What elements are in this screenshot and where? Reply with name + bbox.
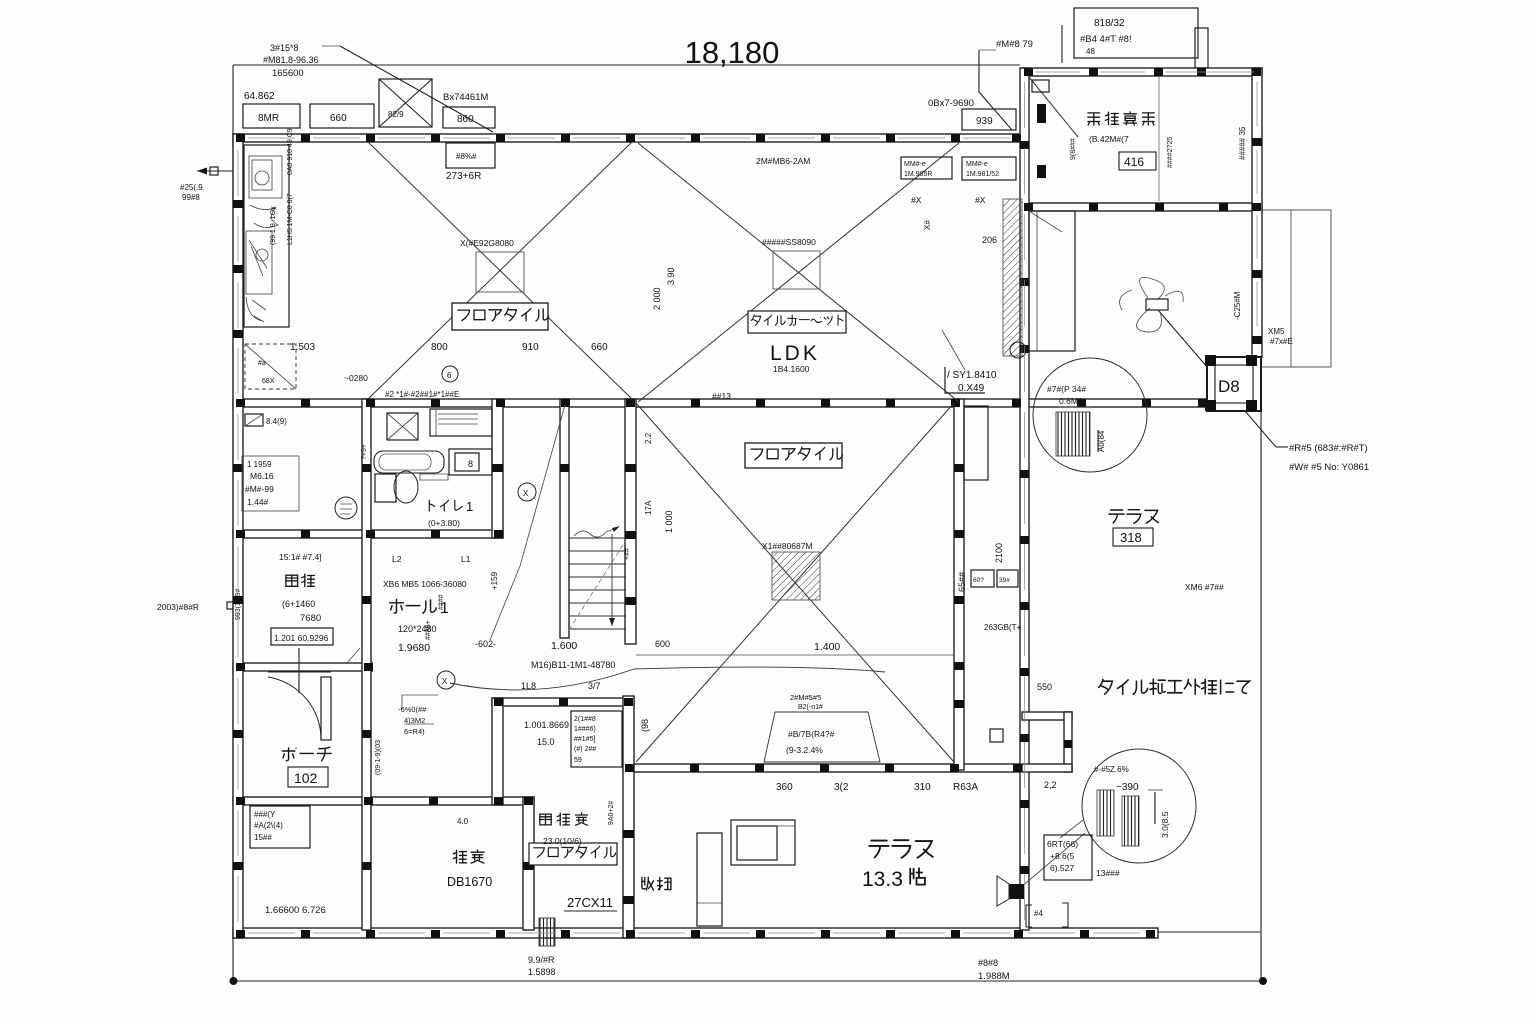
svg-text:#8%#: #8%# [456, 152, 477, 161]
svg-text:#-#5Z.6%: #-#5Z.6% [1094, 765, 1129, 774]
svg-text:1.988M: 1.988M [978, 971, 1010, 982]
svg-text:(0+3.80): (0+3.80) [428, 518, 460, 528]
svg-text:6: 6 [447, 371, 452, 380]
svg-text:(99 1.9 :1Oy: (99 1.9 :1Oy [270, 206, 277, 245]
svg-text:59: 59 [574, 757, 582, 764]
svg-text:#8#8: #8#8 [978, 958, 998, 968]
svg-text:#B/7B(R4?#: #B/7B(R4?# [788, 729, 835, 739]
svg-text:60?: 60? [973, 577, 984, 584]
svg-text:#R#5 (683#:#R#T): #R#5 (683#:#R#T) [1289, 443, 1368, 454]
svg-text:###6+: ###6+ [425, 620, 432, 640]
svg-text:L1: L1 [461, 554, 471, 564]
svg-text:1M.981/52: 1M.981/52 [966, 171, 999, 178]
svg-text:15.0: 15.0 [537, 737, 555, 747]
svg-text:(09-1-9)(03: (09-1-9)(03 [375, 740, 382, 775]
svg-text:64.862: 64.862 [244, 91, 275, 102]
svg-text:23.0(10/6): 23.0(10/6) [543, 836, 582, 846]
svg-text:(9-3.2.4%: (9-3.2.4% [786, 745, 823, 755]
svg-text:#M#8 79: #M#8 79 [996, 39, 1033, 50]
svg-text:X(#E92G8080: X(#E92G8080 [460, 238, 514, 248]
svg-text:1 000: 1 000 [664, 510, 674, 533]
svg-text:~390: ~390 [1116, 782, 1139, 793]
svg-text:##### 35: ##### 35 [1238, 126, 1247, 160]
svg-text:####: #### [438, 594, 445, 610]
svg-text:1 1959: 1 1959 [247, 460, 272, 469]
svg-text:13###: 13### [1096, 868, 1120, 878]
svg-text:15##: 15## [254, 833, 272, 842]
svg-text:0A0 910 49 C9: 0A0 910 49 C9 [287, 128, 294, 175]
svg-text:318: 318 [1120, 530, 1142, 545]
svg-text:600: 600 [655, 639, 670, 649]
svg-text:8.4(9): 8.4(9) [266, 417, 287, 426]
svg-text:(#) 2##: (#) 2## [574, 746, 596, 753]
svg-text:9.9/#R: 9.9/#R [528, 955, 555, 965]
svg-text:+##: +## [624, 548, 631, 560]
svg-text:-602-: -602- [475, 639, 496, 649]
svg-text:XB6 MB5 1066-36080: XB6 MB5 1066-36080 [383, 579, 467, 589]
svg-text:1.9680: 1.9680 [398, 642, 430, 654]
svg-text:17A: 17A [644, 500, 653, 515]
svg-text:7680: 7680 [300, 613, 321, 624]
svg-text:X#: X# [923, 220, 932, 230]
svg-text:27CX11: 27CX11 [567, 895, 613, 910]
svg-text:Bx74461M: Bx74461M [443, 92, 489, 103]
svg-text:416: 416 [1124, 155, 1144, 169]
svg-text:2100: 2100 [994, 543, 1004, 563]
svg-text:+159: +159 [490, 571, 499, 590]
svg-text:2(1##8: 2(1##8 [574, 716, 596, 723]
svg-text:18,180: 18,180 [685, 35, 780, 70]
svg-text:1.5898: 1.5898 [528, 967, 556, 977]
svg-text:0Bx7-9690: 0Bx7-9690 [928, 98, 974, 109]
svg-text:#W# #5 No: Y0861: #W# #5 No: Y0861 [1289, 462, 1369, 473]
svg-text:L1H5 1M-C8 0(7: L1H5 1M-C8 0(7 [287, 193, 294, 245]
svg-text:3.0(8.5: 3.0(8.5 [1160, 811, 1170, 838]
svg-text:1.66600 6.726: 1.66600 6.726 [265, 905, 326, 916]
svg-text:8MR: 8MR [258, 113, 279, 124]
svg-text:1M.985R: 1M.985R [904, 171, 932, 178]
svg-text:2.2: 2.2 [644, 432, 653, 444]
svg-text:(B.42M#(7: (B.42M#(7 [1089, 134, 1129, 144]
svg-text:206: 206 [982, 235, 997, 245]
svg-text:0.6M6: 0.6M6 [1059, 396, 1083, 406]
svg-text:#7x#E: #7x#E [1270, 337, 1293, 346]
svg-text:6RT(66): 6RT(66) [1047, 839, 1078, 849]
svg-text:1.400: 1.400 [814, 641, 840, 653]
svg-text:M16)B11-1M1-48780: M16)B11-1M1-48780 [531, 660, 615, 670]
svg-text:15:1# #7.4]: 15:1# #7.4] [279, 552, 322, 562]
svg-text:8: 8 [468, 459, 473, 469]
svg-text:?+9+: ?+9+ [361, 444, 368, 460]
svg-text:#2 *1#-#2##1#*1##E: #2 *1#-#2##1#*1##E [385, 390, 459, 399]
svg-text:310: 310 [914, 782, 931, 793]
svg-text:3/7: 3/7 [588, 681, 601, 691]
svg-text:4.0: 4.0 [457, 817, 469, 826]
svg-text:3(2: 3(2 [834, 782, 849, 793]
svg-text:R63A: R63A [953, 782, 978, 793]
svg-text:65##: 65## [957, 572, 967, 592]
svg-text:1: 1 [466, 499, 473, 514]
svg-text:99#8: 99#8 [182, 193, 200, 202]
svg-text:#M#-99: #M#-99 [245, 484, 274, 494]
svg-text:660: 660 [591, 342, 608, 353]
svg-text:+8.6(5: +8.6(5 [1050, 851, 1075, 861]
svg-text:~0280: ~0280 [344, 373, 368, 383]
svg-text:XM6 #7##: XM6 #7## [1185, 582, 1224, 592]
svg-text:550: 550 [1037, 682, 1052, 692]
svg-text:82/9: 82/9 [388, 110, 404, 119]
svg-text:165600: 165600 [272, 68, 304, 79]
svg-text:L2: L2 [392, 554, 402, 564]
svg-text:860: 860 [457, 114, 474, 125]
svg-text:(6+1460: (6+1460 [282, 599, 315, 609]
svg-text:360: 360 [776, 782, 793, 793]
svg-text:MM#-e: MM#-e [966, 161, 988, 168]
svg-text:-6%0(##: -6%0(## [398, 705, 427, 714]
svg-text:##13: ##13 [712, 391, 731, 401]
svg-text:#4: #4 [1034, 909, 1043, 918]
svg-text:X1##80687M: X1##80687M [762, 541, 813, 551]
svg-text:M6.16: M6.16 [250, 471, 274, 481]
svg-text:3#15*8: 3#15*8 [270, 43, 299, 53]
svg-text:68X: 68X [262, 378, 275, 385]
svg-text:#####SS8090: #####SS8090 [762, 237, 816, 247]
svg-text:#X: #X [975, 195, 986, 205]
svg-text:1.001.8669: 1.001.8669 [524, 720, 569, 730]
svg-text:4)3M2: 4)3M2 [404, 716, 425, 725]
svg-text:1###6): 1###6) [574, 726, 596, 733]
svg-text:2003)#8#R: 2003)#8#R [157, 602, 199, 612]
svg-text:1.600: 1.600 [551, 640, 577, 652]
svg-text:D8: D8 [1218, 377, 1240, 396]
svg-text:#A(2\(4): #A(2\(4) [254, 821, 283, 830]
svg-text:#M81.8-96.36: #M81.8-96.36 [263, 55, 319, 65]
svg-text:X: X [442, 677, 448, 686]
svg-text:#a: #a [258, 360, 266, 367]
svg-text:660: 660 [330, 113, 347, 124]
svg-text:X: X [523, 489, 529, 498]
svg-text:1.201 60.9296: 1.201 60.9296 [274, 633, 329, 643]
svg-text:3 90: 3 90 [666, 267, 676, 285]
svg-text:(98: (98 [640, 719, 650, 732]
svg-text:1B4.1600: 1B4.1600 [773, 364, 810, 374]
svg-text:A0(84: A0(84 [1097, 430, 1106, 452]
svg-text:XM5: XM5 [1268, 327, 1285, 336]
svg-text:6).527: 6).527 [1050, 863, 1074, 873]
svg-text:#B4 4#T #8!: #B4 4#T #8! [1080, 34, 1132, 45]
svg-text:273+6R: 273+6R [446, 171, 481, 182]
svg-text:B2(-n1#: B2(-n1# [798, 704, 823, 711]
svg-text:1L8: 1L8 [521, 681, 536, 691]
svg-text:#X: #X [911, 195, 922, 205]
svg-text:9A0+2#: 9A0+2# [608, 801, 615, 825]
svg-text:#7#(P 34#: #7#(P 34# [1047, 384, 1086, 394]
svg-text:1.44#: 1.44# [247, 497, 269, 507]
svg-text:#25(.9: #25(.9 [180, 183, 203, 192]
svg-text:263GB(T+: 263GB(T+ [984, 623, 1021, 632]
svg-text:-C25#M: -C25#M [1233, 291, 1242, 320]
svg-text:910: 910 [522, 342, 539, 353]
svg-text:48: 48 [1086, 47, 1095, 56]
svg-text:0.X49: 0.X49 [958, 383, 985, 394]
svg-text:102: 102 [294, 770, 318, 786]
svg-text:LDK: LDK [770, 342, 820, 365]
svg-text:800: 800 [431, 342, 448, 353]
svg-text:818/32: 818/32 [1094, 18, 1125, 29]
svg-text:####2?25: ####2?25 [1167, 137, 1174, 168]
svg-text:6=R4): 6=R4) [404, 727, 425, 736]
svg-text:2M#MB6-2AM: 2M#MB6-2AM [756, 156, 810, 166]
svg-text:2#M#5#5: 2#M#5#5 [790, 693, 821, 702]
svg-text:13.3: 13.3 [862, 868, 903, 891]
svg-text:939: 939 [976, 116, 993, 127]
svg-text:993(1 49#: 993(1 49# [235, 588, 242, 620]
svg-text:###(Y: ###(Y [254, 810, 276, 819]
svg-text:/ SY1.8410: / SY1.8410 [947, 370, 997, 381]
svg-text:DB1670: DB1670 [447, 875, 492, 889]
svg-text:9(8###: 9(8### [1070, 138, 1077, 160]
svg-text:##1#5]: ##1#5] [574, 736, 595, 743]
svg-text:2,2: 2,2 [1044, 780, 1057, 790]
svg-text:MM#-e: MM#-e [904, 161, 926, 168]
svg-text:2 000: 2 000 [652, 287, 662, 310]
svg-text:39#: 39# [999, 577, 1010, 584]
svg-text:1.503: 1.503 [290, 342, 315, 353]
